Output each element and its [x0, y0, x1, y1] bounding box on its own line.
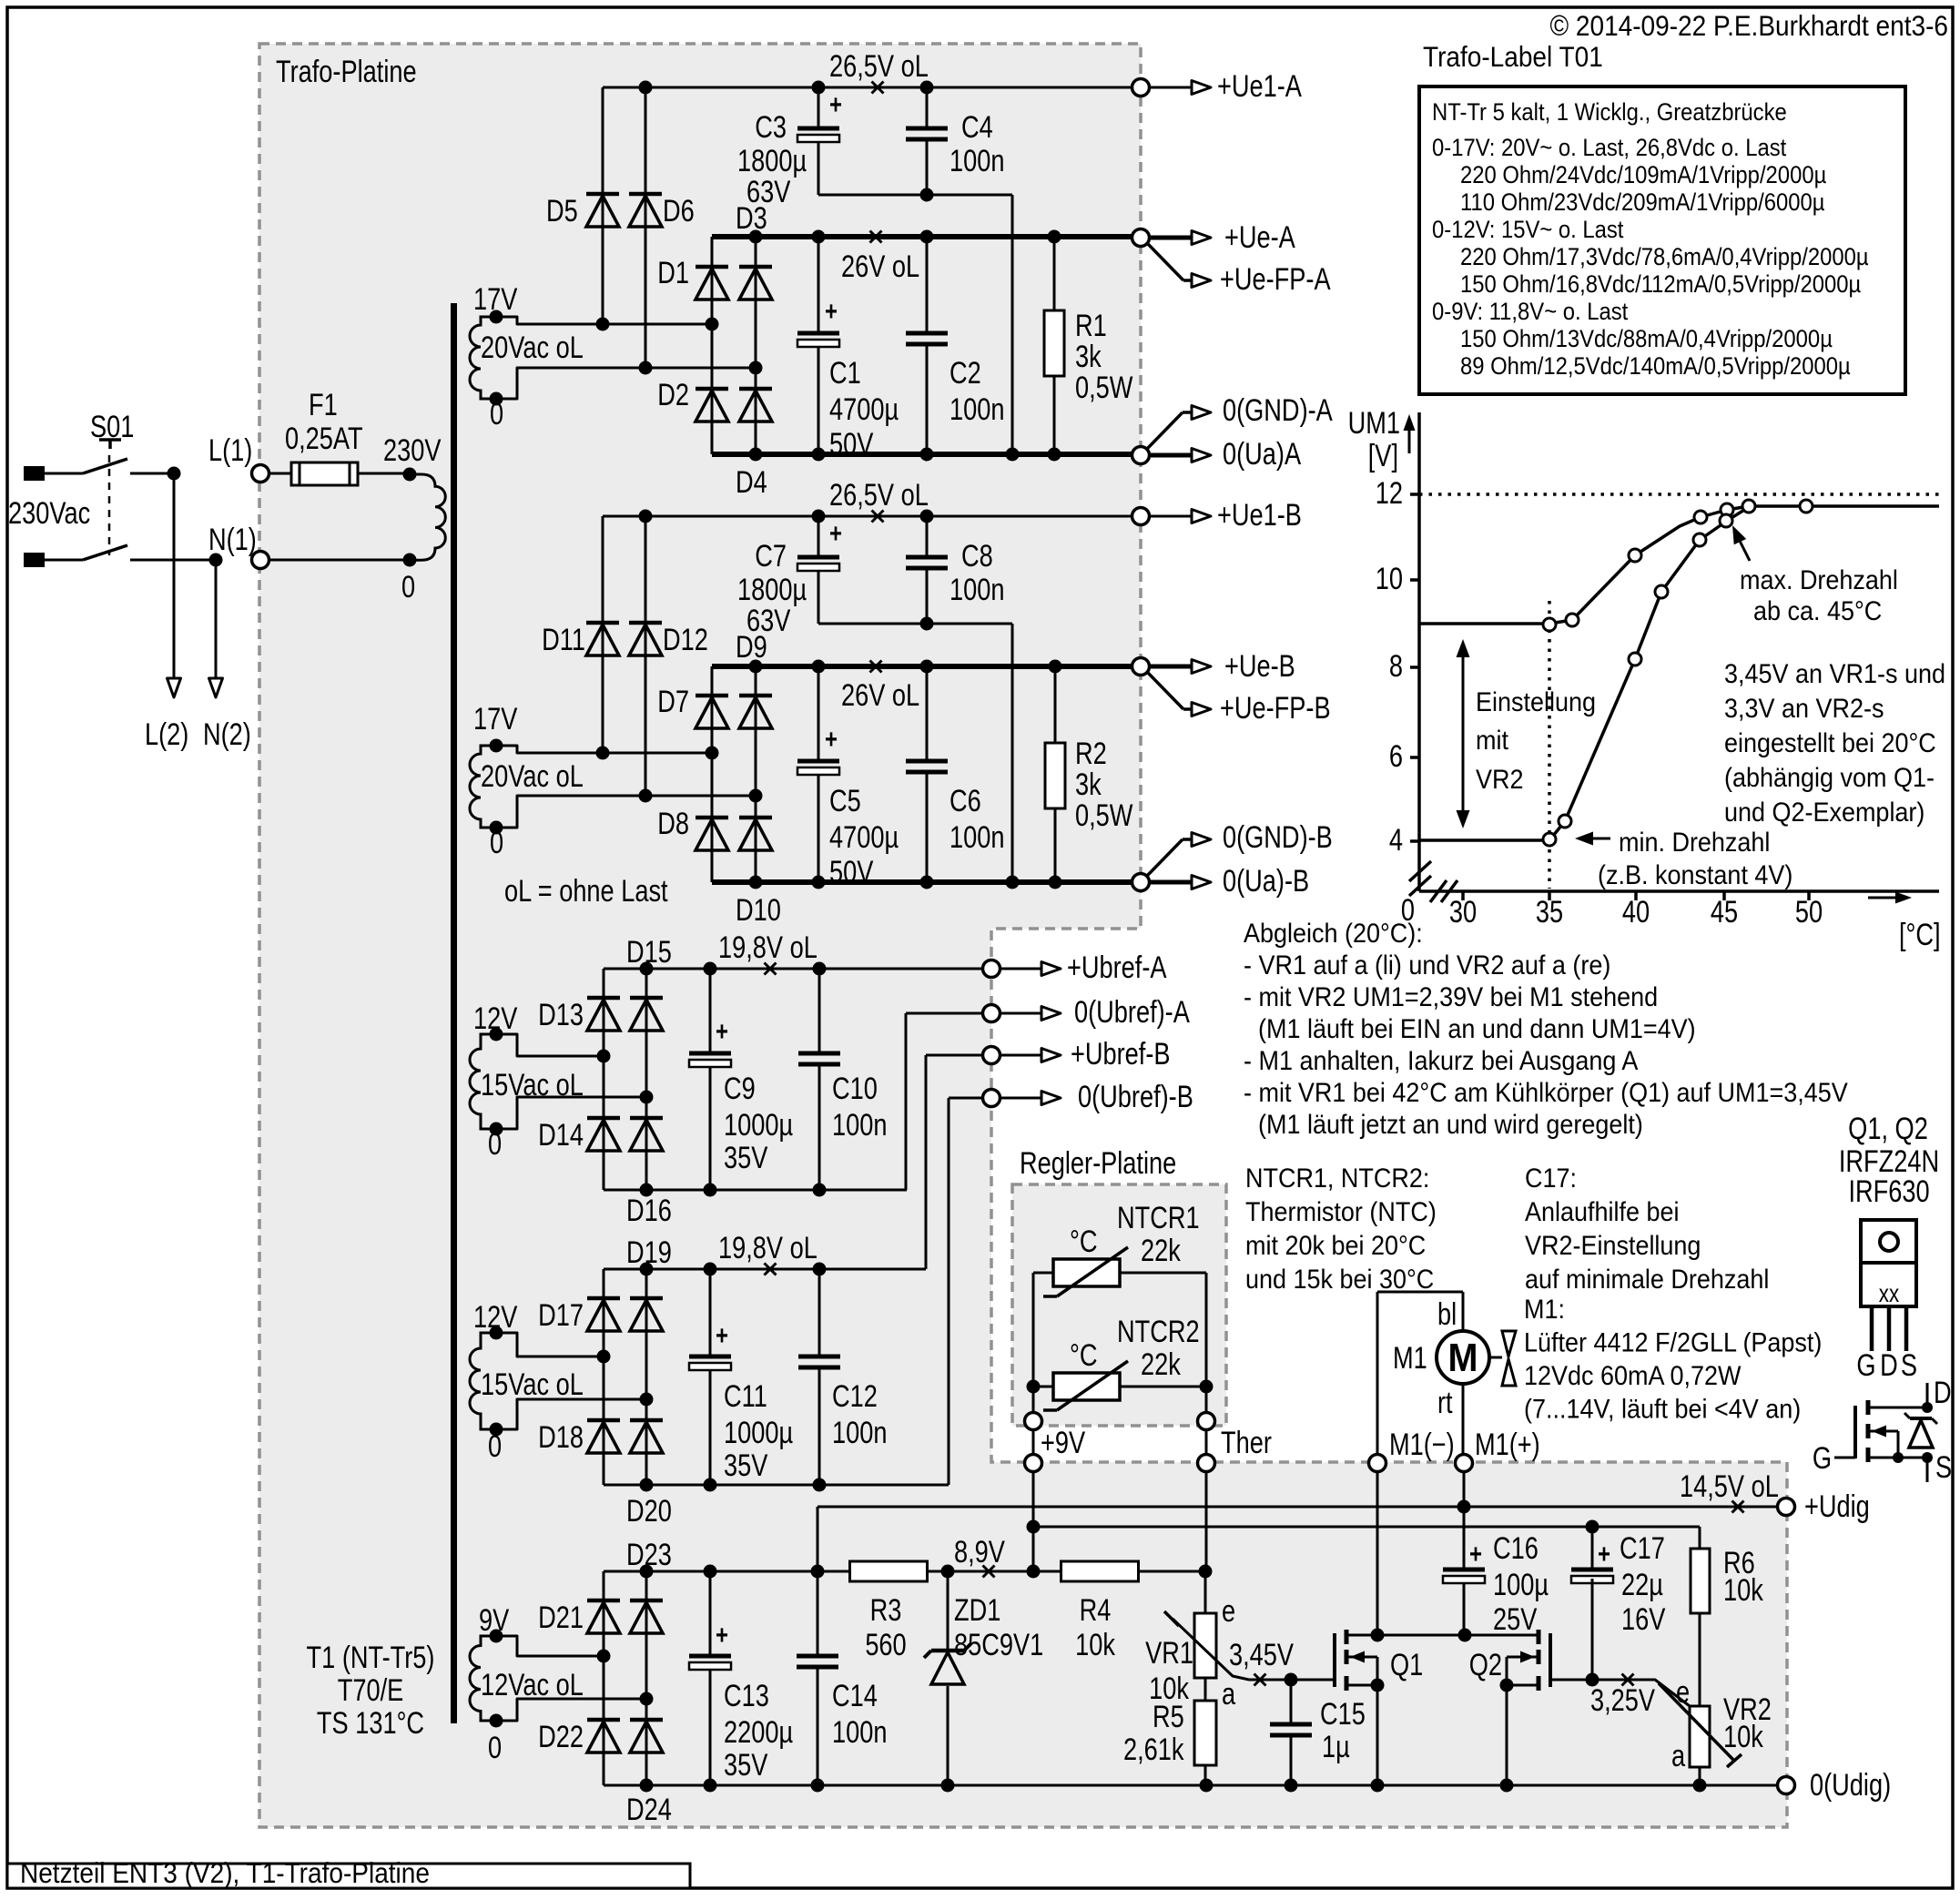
svg-text:+: +: [716, 1319, 728, 1350]
svg-text:D22: D22: [538, 1719, 584, 1754]
svg-text:+Ue-A: +Ue-A: [1224, 219, 1295, 255]
svg-text:3k: 3k: [1075, 339, 1102, 374]
svg-text:4700µ: 4700µ: [829, 819, 899, 855]
svg-text:D16: D16: [626, 1193, 672, 1228]
svg-text:50V: 50V: [829, 854, 874, 889]
svg-text:(7...14V, läuft bei <4V an): (7...14V, läuft bei <4V an): [1524, 1394, 1801, 1425]
svg-text:35V: 35V: [724, 1448, 768, 1483]
svg-text:35V: 35V: [724, 1140, 768, 1175]
svg-text:R4: R4: [1080, 1592, 1112, 1628]
svg-text:bl: bl: [1437, 1296, 1457, 1332]
svg-text:50V: 50V: [829, 426, 874, 462]
svg-text:8,9V: 8,9V: [954, 1534, 1005, 1570]
svg-text:150 Ohm/13Vdc/88mA/0,4Vripp/20: 150 Ohm/13Vdc/88mA/0,4Vripp/2000µ: [1460, 326, 1833, 352]
svg-text:10: 10: [1376, 561, 1403, 596]
svg-text:- M1 anhalten, Iakurz bei Ausg: - M1 anhalten, Iakurz bei Ausgang A: [1244, 1046, 1638, 1077]
svg-text:VR2-Einstellung: VR2-Einstellung: [1525, 1231, 1701, 1262]
svg-text:NT-Tr 5 kalt, 1 Wicklg., Grea: NT-Tr 5 kalt, 1 Wicklg., Greatzbrücke: [1432, 99, 1787, 126]
svg-text:- VR1 auf a (li) und VR2 auf a: - VR1 auf a (li) und VR2 auf a (re): [1244, 950, 1610, 981]
svg-text:0(Ubref)-A: 0(Ubref)-A: [1074, 994, 1190, 1030]
svg-text:20Vac oL: 20Vac oL: [481, 758, 584, 794]
svg-text:0(GND)-B: 0(GND)-B: [1223, 819, 1333, 855]
svg-text:C17: C17: [1620, 1530, 1665, 1566]
svg-text:D7: D7: [657, 684, 689, 719]
svg-text:0: 0: [488, 1428, 502, 1464]
svg-text:Netzteil ENT3 (V2), T1-Trafo-P: Netzteil ENT3 (V2), T1-Trafo-Platine: [20, 1858, 430, 1890]
svg-text:D: D: [1880, 1347, 1898, 1383]
svg-text:25V: 25V: [1493, 1601, 1538, 1637]
svg-text:(M1 läuft jetzt an und wird ge: (M1 läuft jetzt an und wird geregelt): [1258, 1110, 1643, 1141]
svg-text:NTCR1: NTCR1: [1117, 1200, 1200, 1235]
svg-text:T1 (NT-Tr5): T1 (NT-Tr5): [307, 1640, 435, 1675]
svg-text:1000µ: 1000µ: [724, 1107, 793, 1143]
svg-text:16V: 16V: [1621, 1601, 1666, 1637]
svg-text:0(Ua)-B: 0(Ua)-B: [1223, 863, 1309, 899]
svg-text:C12: C12: [832, 1378, 878, 1414]
svg-text:17V: 17V: [473, 701, 518, 737]
svg-text:D18: D18: [538, 1419, 584, 1455]
svg-text:C6: C6: [950, 783, 981, 818]
svg-text:26V oL: 26V oL: [841, 249, 919, 284]
svg-text:C3: C3: [755, 109, 787, 145]
svg-text:Q1, Q2: Q1, Q2: [1848, 1111, 1928, 1146]
svg-text:C17:: C17:: [1525, 1163, 1577, 1194]
svg-text:8: 8: [1389, 648, 1403, 684]
svg-text:+: +: [716, 1015, 728, 1046]
svg-text:0,5W: 0,5W: [1075, 798, 1132, 833]
svg-text:35V: 35V: [724, 1747, 768, 1783]
svg-text:© 2014-09-22 P.E.Burkhardt ent: © 2014-09-22 P.E.Burkhardt ent3-6: [1549, 11, 1948, 43]
svg-text:C13: C13: [724, 1678, 769, 1713]
svg-text:D2: D2: [657, 377, 689, 412]
svg-text:14,5V oL: 14,5V oL: [1680, 1468, 1779, 1504]
svg-text:0(Ua)A: 0(Ua)A: [1223, 436, 1302, 472]
svg-text:0-12V: 15V~ o. Last: 0-12V: 15V~ o. Last: [1432, 217, 1623, 243]
svg-text:4: 4: [1389, 822, 1403, 858]
svg-text:0: 0: [1401, 892, 1415, 928]
svg-text:F1: F1: [309, 387, 338, 422]
svg-text:10k: 10k: [1075, 1627, 1115, 1662]
svg-text:22k: 22k: [1141, 1346, 1181, 1382]
svg-text:45: 45: [1711, 894, 1738, 930]
svg-text:[°C]: [°C]: [1899, 917, 1941, 952]
svg-text:+: +: [1598, 1538, 1610, 1569]
svg-text:N(1): N(1): [208, 522, 257, 557]
svg-text:+: +: [716, 1619, 728, 1650]
svg-text:M1(+): M1(+): [1475, 1427, 1540, 1462]
svg-text:6: 6: [1389, 738, 1403, 774]
svg-text:100µ: 100µ: [1493, 1567, 1549, 1602]
svg-text:22k: 22k: [1141, 1233, 1181, 1268]
svg-text:M1(−): M1(−): [1389, 1427, 1455, 1462]
svg-text:0(GND)-A: 0(GND)-A: [1223, 392, 1333, 428]
svg-text:und Q2-Exemplar): und Q2-Exemplar): [1724, 798, 1924, 828]
svg-text:+: +: [1469, 1538, 1482, 1569]
svg-text:a: a: [1222, 1676, 1236, 1712]
svg-text:D6: D6: [663, 193, 695, 229]
svg-text:4700µ: 4700µ: [829, 391, 899, 427]
svg-text:VR2: VR2: [1476, 765, 1523, 796]
svg-text:10k: 10k: [1723, 1719, 1763, 1754]
svg-text:+Ue1-A: +Ue1-A: [1217, 68, 1302, 104]
svg-text:110 Ohm/23Vdc/209mA/1Vripp/600: 110 Ohm/23Vdc/209mA/1Vripp/6000µ: [1460, 189, 1825, 216]
svg-text:0(Udig): 0(Udig): [1810, 1767, 1891, 1803]
svg-text:M1: M1: [1393, 1340, 1427, 1376]
svg-text:3,25V: 3,25V: [1590, 1682, 1655, 1718]
svg-text:G: G: [1813, 1440, 1832, 1476]
svg-text:1000µ: 1000µ: [724, 1415, 793, 1450]
svg-text:0-9V: 11,8V~ o. Last: 0-9V: 11,8V~ o. Last: [1432, 299, 1628, 325]
svg-text:3k: 3k: [1075, 767, 1102, 802]
svg-text:Q2: Q2: [1469, 1647, 1502, 1682]
svg-text:C15: C15: [1320, 1696, 1366, 1732]
svg-text:12Vac oL: 12Vac oL: [481, 1667, 584, 1702]
svg-text:D11: D11: [542, 622, 585, 657]
svg-text:C4: C4: [961, 109, 993, 145]
svg-text:63V: 63V: [746, 603, 791, 638]
svg-text:D1: D1: [657, 255, 689, 290]
svg-text:C1: C1: [829, 355, 861, 391]
svg-text:D24: D24: [626, 1792, 672, 1827]
svg-text:- mit VR1 bei 42°C am Kühlkörp: - mit VR1 bei 42°C am Kühlkörper (Q1) au…: [1244, 1078, 1848, 1109]
svg-text:TS 131°C: TS 131°C: [317, 1705, 424, 1741]
svg-text:0-17V: 20V~ o. Last, 26,8Vdc: 0-17V: 20V~ o. Last, 26,8Vdc o. Last: [1432, 135, 1786, 161]
svg-text:D21: D21: [538, 1600, 584, 1635]
svg-text:22µ: 22µ: [1621, 1567, 1663, 1602]
svg-text:0,5W: 0,5W: [1075, 370, 1132, 405]
svg-text:35: 35: [1536, 894, 1563, 930]
svg-text:3,45V an VR1-s und: 3,45V an VR1-s und: [1724, 659, 1945, 690]
svg-text:rt: rt: [1437, 1385, 1453, 1420]
svg-text:auf minimale Drehzahl: auf minimale Drehzahl: [1525, 1265, 1769, 1295]
svg-text:2,61k: 2,61k: [1123, 1732, 1184, 1767]
svg-text:C5: C5: [829, 783, 861, 818]
svg-text:e: e: [1222, 1593, 1235, 1629]
svg-text:R2: R2: [1075, 736, 1107, 771]
svg-text:+Udig: +Udig: [1804, 1489, 1870, 1524]
svg-text:M: M: [1448, 1335, 1478, 1379]
svg-text:D8: D8: [657, 806, 689, 841]
svg-text:3,3V an VR2-s: 3,3V an VR2-s: [1724, 694, 1884, 725]
svg-text:19,8V oL: 19,8V oL: [718, 930, 818, 965]
svg-text:Regler-Platine: Regler-Platine: [1020, 1145, 1176, 1181]
svg-text:eingestellt bei 20°C: eingestellt bei 20°C: [1724, 728, 1936, 759]
svg-text:e: e: [1676, 1674, 1690, 1710]
svg-text:VR1: VR1: [1145, 1635, 1193, 1671]
svg-text:C11: C11: [724, 1378, 767, 1414]
svg-text:0,25AT: 0,25AT: [285, 421, 363, 456]
svg-text:230V: 230V: [383, 432, 442, 468]
svg-text:mit: mit: [1476, 726, 1508, 757]
svg-text:9V: 9V: [479, 1602, 510, 1638]
svg-text:°C: °C: [1070, 1337, 1098, 1373]
svg-text:220 Ohm/17,3Vdc/78,6mA/0,4Vrip: 220 Ohm/17,3Vdc/78,6mA/0,4Vripp/2000µ: [1460, 244, 1869, 270]
svg-text:G: G: [1856, 1347, 1875, 1383]
svg-text:Anlaufhilfe bei: Anlaufhilfe bei: [1525, 1197, 1679, 1228]
svg-text:R1: R1: [1075, 308, 1107, 343]
svg-text:3,45V: 3,45V: [1229, 1637, 1294, 1672]
svg-text:2200µ: 2200µ: [724, 1714, 793, 1750]
svg-text:26,5V oL: 26,5V oL: [829, 477, 929, 513]
svg-text:IRF630: IRF630: [1848, 1174, 1929, 1209]
svg-text:C9: C9: [724, 1071, 756, 1106]
svg-text:D12: D12: [663, 622, 708, 657]
svg-text:L(1): L(1): [208, 432, 252, 468]
svg-text:15Vac oL: 15Vac oL: [481, 1067, 584, 1102]
svg-text:xx: xx: [1879, 1280, 1900, 1308]
svg-text:50: 50: [1795, 894, 1823, 930]
svg-text:100n: 100n: [950, 819, 1004, 855]
svg-text:+Ue-FP-B: +Ue-FP-B: [1220, 690, 1331, 726]
svg-text:Abgleich (20°C):: Abgleich (20°C):: [1244, 919, 1423, 950]
svg-text:100n: 100n: [950, 143, 1004, 178]
svg-text:C10: C10: [832, 1071, 878, 1106]
svg-text:+Ue-FP-A: +Ue-FP-A: [1220, 261, 1331, 297]
svg-text:NTCR1, NTCR2:: NTCR1, NTCR2:: [1245, 1163, 1429, 1194]
svg-text:D20: D20: [626, 1493, 672, 1529]
svg-text:100n: 100n: [950, 391, 1004, 427]
svg-text:(M1 läuft bei EIN an und dann: (M1 läuft bei EIN an und dann UM1=4V): [1258, 1014, 1696, 1045]
svg-text:R5: R5: [1153, 1699, 1184, 1734]
svg-text:1800µ: 1800µ: [737, 143, 807, 178]
svg-text:Lüfter 4412 F/2GLL (Papst): Lüfter 4412 F/2GLL (Papst): [1524, 1327, 1822, 1358]
svg-text:100n: 100n: [950, 572, 1004, 607]
svg-text:230Vac: 230Vac: [8, 495, 90, 531]
svg-text:min. Drehzahl: min. Drehzahl: [1619, 828, 1770, 859]
svg-text:M1:: M1:: [1524, 1295, 1565, 1326]
svg-text:30: 30: [1449, 894, 1477, 930]
svg-text:+9V: +9V: [1041, 1425, 1086, 1460]
svg-text:100n: 100n: [832, 1415, 887, 1450]
svg-text:S01: S01: [90, 409, 134, 444]
svg-text:C8: C8: [961, 538, 993, 574]
svg-text:0: 0: [488, 1126, 502, 1162]
svg-text:C2: C2: [950, 355, 981, 391]
svg-text:(z.B. konstant 4V): (z.B. konstant 4V): [1598, 860, 1792, 891]
svg-text:100n: 100n: [832, 1714, 887, 1750]
svg-text:63V: 63V: [746, 174, 791, 209]
svg-text:40: 40: [1622, 894, 1650, 930]
svg-text:D10: D10: [736, 892, 781, 928]
svg-text:+: +: [829, 88, 842, 119]
svg-text:0: 0: [490, 396, 503, 432]
svg-text:D14: D14: [538, 1117, 584, 1153]
svg-text:D4: D4: [736, 464, 767, 500]
svg-text:150 Ohm/16,8Vdc/112mA/0,5Vripp: 150 Ohm/16,8Vdc/112mA/0,5Vripp/2000µ: [1460, 271, 1861, 298]
svg-text:C16: C16: [1493, 1530, 1539, 1566]
svg-text:ZD1: ZD1: [954, 1592, 1000, 1628]
svg-text:R3: R3: [870, 1592, 902, 1628]
svg-text:°C: °C: [1070, 1224, 1098, 1259]
svg-text:[V]: [V]: [1368, 438, 1398, 473]
svg-text:220 Ohm/24Vdc/109mA/1Vripp/200: 220 Ohm/24Vdc/109mA/1Vripp/2000µ: [1460, 162, 1826, 188]
svg-text:1µ: 1µ: [1322, 1729, 1350, 1764]
svg-text:12Vdc 60mA 0,72W: 12Vdc 60mA 0,72W: [1524, 1361, 1742, 1392]
svg-text:N(2): N(2): [203, 716, 251, 752]
svg-text:Ther: Ther: [1221, 1425, 1272, 1460]
svg-text:S: S: [1901, 1347, 1917, 1383]
svg-text:C7: C7: [755, 538, 787, 574]
svg-text:UM1: UM1: [1348, 405, 1400, 441]
svg-text:+Ue1-B: +Ue1-B: [1217, 497, 1302, 533]
svg-text:mit 20k bei 20°C: mit 20k bei 20°C: [1245, 1231, 1426, 1262]
svg-text:+Ue-B: +Ue-B: [1224, 648, 1295, 684]
svg-text:Thermistor (NTC): Thermistor (NTC): [1245, 1197, 1437, 1228]
svg-text:D5: D5: [546, 193, 578, 229]
svg-text:D13: D13: [538, 997, 584, 1032]
svg-text:17V: 17V: [473, 281, 518, 317]
svg-text:15Vac oL: 15Vac oL: [481, 1367, 584, 1402]
svg-text:89 Ohm/12,5Vdc/140mA/0,5Vripp/: 89 Ohm/12,5Vdc/140mA/0,5Vripp/2000µ: [1460, 353, 1851, 380]
svg-text:12V: 12V: [473, 1299, 518, 1335]
svg-text:0: 0: [401, 569, 415, 605]
svg-text:+: +: [829, 517, 842, 548]
svg-text:85C9V1: 85C9V1: [954, 1627, 1043, 1662]
svg-text:Einstellung: Einstellung: [1476, 687, 1596, 718]
svg-text:20Vac oL: 20Vac oL: [481, 330, 584, 365]
svg-text:max. Drehzahl: max. Drehzahl: [1740, 565, 1898, 596]
svg-text:oL = ohne Last: oL = ohne Last: [504, 873, 668, 909]
svg-text:L(2): L(2): [145, 716, 188, 752]
svg-text:a: a: [1671, 1738, 1686, 1773]
svg-text:0(Ubref)-B: 0(Ubref)-B: [1078, 1079, 1193, 1114]
svg-text:12: 12: [1376, 475, 1403, 511]
svg-text:T70/E: T70/E: [338, 1672, 404, 1708]
svg-text:- mit VR2 UM1=2,39V bei M1 ste: - mit VR2 UM1=2,39V bei M1 stehend: [1244, 982, 1658, 1013]
svg-text:Trafo-Label T01: Trafo-Label T01: [1423, 42, 1603, 74]
svg-text:und 15k bei 30°C: und 15k bei 30°C: [1245, 1265, 1434, 1295]
svg-text:D: D: [1934, 1375, 1952, 1410]
svg-text:12V: 12V: [473, 1001, 518, 1036]
svg-text:26,5V oL: 26,5V oL: [829, 48, 929, 84]
svg-text:D17: D17: [538, 1297, 584, 1333]
svg-text:C14: C14: [832, 1678, 878, 1713]
svg-text:10k: 10k: [1723, 1572, 1763, 1608]
svg-text:ab ca. 45°C: ab ca. 45°C: [1753, 596, 1882, 627]
svg-text:0: 0: [490, 825, 503, 860]
svg-text:100n: 100n: [832, 1107, 887, 1143]
svg-text:+Ubref-A: +Ubref-A: [1067, 950, 1167, 985]
svg-text:Q1: Q1: [1390, 1647, 1423, 1682]
svg-text:(abhängig vom Q1-: (abhängig vom Q1-: [1724, 763, 1935, 794]
svg-text:+Ubref-B: +Ubref-B: [1071, 1036, 1171, 1072]
svg-text:19,8V oL: 19,8V oL: [718, 1230, 818, 1265]
svg-text:+: +: [825, 723, 838, 754]
svg-text:NTCR2: NTCR2: [1117, 1314, 1200, 1349]
svg-text:0: 0: [488, 1730, 502, 1765]
svg-text:Trafo-Platine: Trafo-Platine: [276, 54, 417, 89]
svg-text:560: 560: [865, 1627, 906, 1662]
svg-text:26V oL: 26V oL: [841, 677, 919, 713]
svg-text:1800µ: 1800µ: [737, 572, 807, 607]
svg-text:S: S: [1935, 1449, 1952, 1485]
svg-text:+: +: [825, 295, 838, 326]
